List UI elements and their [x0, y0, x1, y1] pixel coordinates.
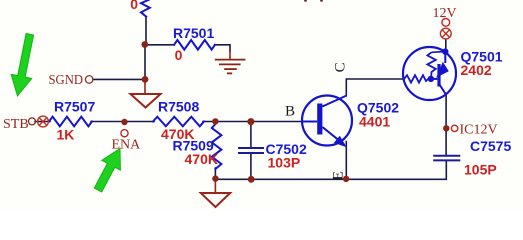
svg-text:1K: 1K — [57, 127, 75, 143]
svg-text:C7575: C7575 — [470, 138, 511, 154]
svg-text:IC12V: IC12V — [460, 123, 498, 138]
svg-text:E: E — [331, 171, 347, 180]
svg-text:12V: 12V — [433, 6, 457, 21]
svg-text:B: B — [285, 104, 295, 120]
svg-text:STB: STB — [3, 117, 29, 132]
svg-text:ENA: ENA — [112, 137, 142, 152]
svg-text:R7507: R7507 — [54, 99, 95, 115]
svg-text:0: 0 — [175, 47, 183, 63]
svg-text:0: 0 — [130, 0, 138, 12]
svg-text:2402: 2402 — [461, 62, 492, 78]
svg-text:SGND: SGND — [49, 73, 84, 88]
svg-text:470K: 470K — [185, 151, 218, 167]
svg-text:R7508: R7508 — [158, 99, 199, 115]
svg-text:4401: 4401 — [359, 113, 390, 129]
svg-text:R7501: R7501 — [173, 25, 214, 41]
svg-text:103P: 103P — [268, 154, 301, 170]
svg-text:105P: 105P — [464, 161, 497, 177]
svg-text:C: C — [333, 62, 349, 72]
